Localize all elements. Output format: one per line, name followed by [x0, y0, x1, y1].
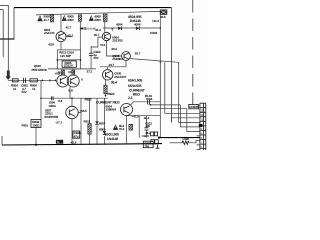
svg-text:47µ: 47µ [74, 134, 79, 138]
svg-text:400V: 400V [67, 18, 75, 22]
svg-text:12V 68P: 12V 68P [60, 54, 71, 58]
svg-text:2SC1507: 2SC1507 [114, 75, 126, 79]
svg-text:37.2: 37.2 [87, 70, 93, 74]
svg-text:40.6: 40.6 [58, 70, 64, 74]
svg-text:1k: 1k [32, 87, 36, 91]
svg-text:R920: R920 [108, 92, 115, 96]
svg-text:L906: L906 [183, 137, 190, 141]
svg-text:2SB564: 2SB564 [106, 108, 117, 112]
svg-text:CN905: CN905 [189, 105, 198, 109]
svg-text:36.4: 36.4 [111, 80, 117, 84]
svg-text:F801: F801 [22, 123, 29, 127]
svg-text:C804: C804 [49, 104, 56, 108]
svg-text:K904: K904 [150, 31, 157, 35]
svg-text:50V: 50V [22, 90, 28, 94]
svg-text:2SD863: 2SD863 [112, 57, 123, 61]
svg-text:ZD12V: ZD12V [64, 64, 74, 68]
svg-text:-0.8: -0.8 [68, 89, 73, 93]
svg-text:+42.5: +42.5 [142, 134, 150, 138]
svg-text:2SA733: 2SA733 [44, 31, 55, 35]
svg-text:-27.1: -27.1 [56, 121, 63, 125]
svg-text:B DRIVER: B DRIVER [45, 115, 59, 119]
svg-text:39.7: 39.7 [135, 51, 141, 55]
svg-text:4004: 4004 [116, 23, 123, 27]
svg-text:+1µ: +1µ [144, 144, 149, 148]
svg-text:B-: B- [57, 140, 60, 144]
svg-text:39.7: 39.7 [109, 63, 115, 67]
svg-text:50V: 50V [94, 56, 100, 60]
svg-text:8509: 8509 [99, 127, 106, 131]
svg-text:+41.1: +41.1 [66, 33, 74, 37]
svg-text:10: 10 [200, 113, 203, 117]
svg-text:-0.8: -0.8 [58, 99, 63, 103]
svg-text:+41.4: +41.4 [152, 19, 160, 23]
svg-text:6SH1.505: 6SH1.505 [128, 79, 142, 83]
svg-text:+41.5: +41.5 [132, 114, 140, 118]
svg-text:1k: 1k [13, 87, 17, 91]
svg-text:4004: 4004 [134, 23, 141, 27]
svg-text:40.8: 40.8 [48, 43, 54, 47]
svg-text:6SG1.505: 6SG1.505 [105, 132, 119, 136]
svg-text:400V: 400V [94, 18, 102, 22]
svg-text:41.7: 41.7 [66, 25, 72, 29]
svg-text:40.5: 40.5 [160, 15, 166, 19]
svg-text:40.7: 40.7 [94, 33, 100, 37]
svg-text:2SC815: 2SC815 [112, 39, 123, 43]
svg-text:REG: REG [133, 92, 140, 96]
svg-text:0: 0 [81, 78, 83, 82]
svg-text:1N4148: 1N4148 [107, 137, 118, 141]
svg-text:1N4148: 1N4148 [129, 19, 140, 23]
svg-text:41.4: 41.4 [95, 28, 101, 32]
svg-text:100Ω: 100Ω [32, 124, 40, 128]
svg-text:2.3: 2.3 [128, 96, 133, 100]
svg-text:R911: R911 [84, 120, 91, 124]
svg-text:41.7: 41.7 [44, 18, 50, 22]
svg-text:+0.6: +0.6 [100, 43, 106, 47]
svg-text:12: 12 [200, 109, 203, 113]
svg-text:R922: R922 [85, 98, 92, 102]
svg-text:PRE DRIVE: PRE DRIVE [32, 68, 47, 72]
svg-text:+41.1: +41.1 [68, 70, 76, 74]
svg-text:+0.2: +0.2 [119, 127, 125, 131]
svg-text:100: 100 [145, 124, 150, 128]
svg-text:40.4: 40.4 [111, 47, 117, 51]
